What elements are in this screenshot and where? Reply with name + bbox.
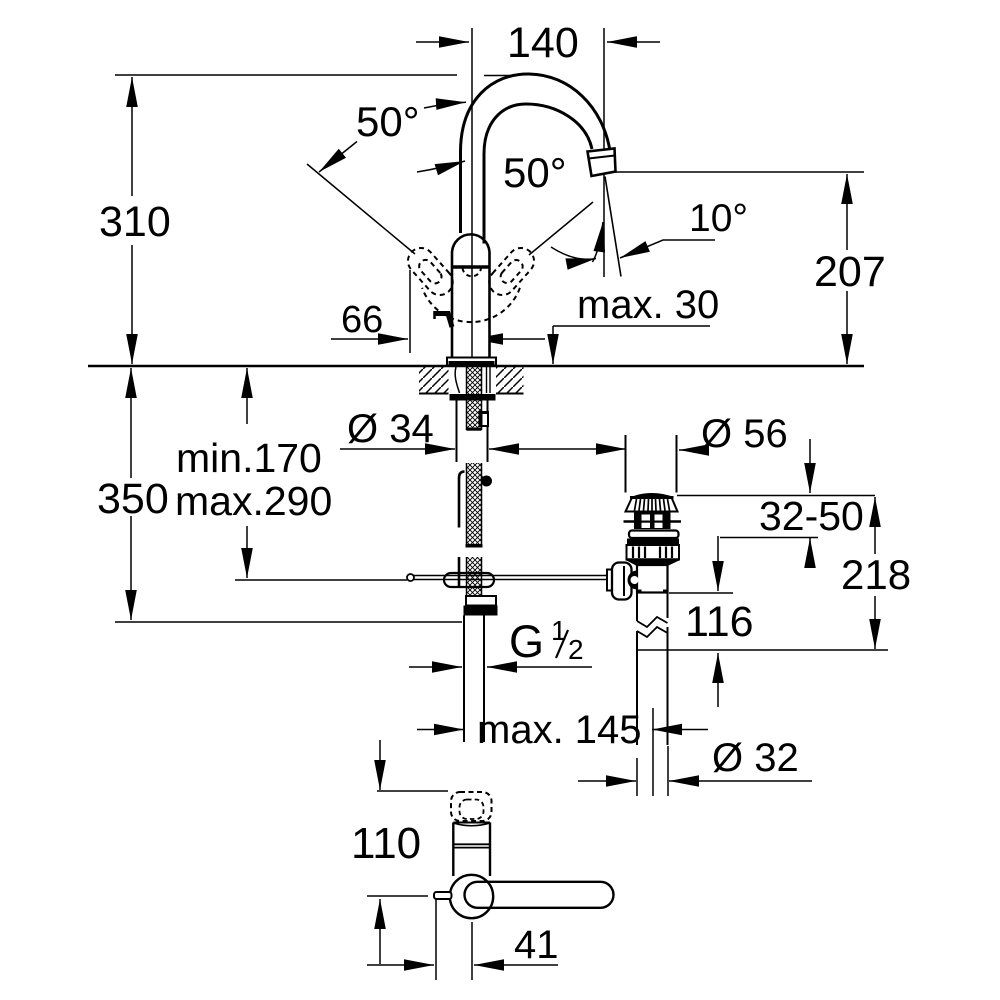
handle swept dashed arc — [422, 288, 520, 322]
spout outlet block — [588, 149, 616, 177]
deck / counter top line — [88, 365, 864, 368]
110 top reference line — [377, 790, 448, 792]
dim 350 — [130, 368, 132, 478]
svg-text:350: 350 — [97, 475, 169, 523]
110 bottom reference line — [367, 895, 428, 897]
braid segment lower — [467, 557, 482, 601]
dim 116 — [717, 536, 719, 591]
dim 310 — [131, 77, 133, 196]
66 extension line — [409, 270, 411, 353]
shank tube below nut — [456, 401, 458, 463]
pull rod upper with hook — [459, 472, 465, 528]
svg-text:Ø 56: Ø 56 — [701, 412, 788, 456]
handle cap bottom line — [452, 265, 490, 269]
supply pipe G1/2 — [463, 616, 465, 743]
top view: column band — [453, 843, 490, 845]
32-50 lower reference line — [720, 537, 818, 539]
dashed handle tilted left paddle — [408, 248, 453, 295]
dim 32-50 arrows — [809, 439, 811, 493]
svg-text:50°: 50° — [356, 98, 420, 145]
spout outer curve — [461, 74, 611, 233]
water jet direction line (10 deg) — [605, 177, 621, 277]
hose curve in deck hole — [455, 367, 459, 393]
tailpipe with break — [636, 593, 638, 622]
flange funnel with knurl — [626, 498, 678, 512]
svg-text:66: 66 — [341, 299, 383, 341]
dim 41 — [367, 964, 434, 966]
dim Ø34 arrows — [340, 448, 455, 450]
10deg leader with arrow — [620, 240, 715, 258]
dim min170/max290 — [246, 368, 248, 424]
pop-up rod lever flag on body — [435, 314, 453, 328]
Ø32 extension lines — [636, 758, 638, 796]
dim 110 — [379, 740, 381, 790]
pull rod ball — [481, 476, 492, 487]
svg-text:min.170: min.170 — [176, 435, 322, 481]
svg-text:Ø 34: Ø 34 — [347, 407, 434, 451]
body step corners — [637, 590, 642, 593]
dim G1/2 — [409, 666, 462, 668]
base flange on deck — [447, 358, 496, 366]
svg-text:41: 41 — [514, 923, 559, 967]
top view: handle hub circle — [450, 875, 493, 918]
32-50 upper reference line — [677, 495, 875, 497]
outlet height reference line (207) — [615, 171, 864, 173]
dim Ø32 — [578, 780, 636, 782]
50deg upper leader arrow 1 — [424, 102, 466, 108]
rod left end cap — [407, 574, 414, 581]
top view: lever capsule — [465, 882, 614, 908]
svg-text:110: 110 — [351, 819, 421, 868]
50deg right diagonal leader — [529, 202, 593, 255]
centerline through body — [471, 233, 473, 364]
angle arc A with arrow — [551, 247, 596, 259]
svg-text:max.290: max.290 — [175, 478, 332, 524]
taper — [627, 561, 680, 567]
116 top reference line — [669, 592, 733, 594]
horizontal pop-up rod — [408, 575, 612, 577]
min170/max290 bottom reference line — [235, 579, 407, 581]
grid section — [634, 512, 671, 530]
dim max.145 — [417, 729, 464, 731]
deck cross-section hatch left — [419, 367, 449, 393]
max145 right extension line — [652, 708, 654, 796]
lever knob — [607, 570, 613, 591]
dim 66 — [331, 338, 408, 340]
svg-text:310: 310 — [99, 198, 171, 246]
lever ball boss — [628, 571, 637, 590]
retaining clip — [479, 411, 490, 427]
41 extension lines — [435, 896, 437, 980]
braid segment below tube — [467, 463, 482, 546]
svg-text:50°: 50° — [503, 149, 567, 196]
top view: dashed spout square — [451, 792, 492, 821]
svg-text:10°: 10° — [689, 197, 748, 240]
pop-up drain upper pipe — [625, 435, 627, 493]
svg-text:116: 116 — [685, 598, 754, 646]
flange ring — [629, 531, 679, 539]
50deg left angle arrow — [319, 142, 357, 173]
angle arc B with arrow — [593, 222, 604, 262]
top view: body column — [452, 823, 454, 877]
pull rod lower segment — [458, 557, 461, 588]
50deg left tangent line — [307, 164, 415, 254]
dim 140 — [416, 41, 469, 43]
dim Ø56 right arrow — [679, 449, 707, 451]
o-ring band — [627, 539, 679, 546]
rod clevis capsule — [444, 573, 494, 587]
top view: spout tip stub — [434, 892, 452, 899]
top reference line (spout height 310) — [115, 74, 457, 76]
spout inner curve — [484, 104, 592, 244]
threaded stud lines — [486, 367, 488, 393]
shank braid through deck — [467, 367, 482, 394]
faucet body column — [452, 234, 490, 358]
svg-text:Ø 32: Ø 32 — [712, 736, 799, 780]
218 bottom reference line — [637, 649, 888, 651]
svg-text:G: G — [509, 616, 544, 667]
max.30 leader — [553, 325, 710, 327]
top view: inner dashed outline — [460, 800, 484, 820]
svg-text:140: 140 — [507, 19, 579, 67]
dashed handle tilted right paddle — [489, 248, 534, 295]
svg-text:max. 30: max. 30 — [577, 283, 719, 327]
deck cross-section hatch right — [496, 367, 524, 393]
lock nut — [627, 545, 680, 560]
svg-text:207: 207 — [814, 248, 886, 296]
svg-text:218: 218 — [841, 551, 911, 598]
spout tip vertical extension line — [603, 28, 605, 277]
valve body — [637, 565, 668, 593]
plug dome — [631, 493, 674, 497]
350 bottom reference line — [115, 621, 462, 623]
dim 207 — [846, 174, 848, 250]
svg-text:max. 145: max. 145 — [477, 708, 642, 752]
svg-text:32-50: 32-50 — [759, 493, 864, 539]
50deg upper leader arrow 2 — [417, 161, 465, 172]
faucet centerline — [471, 28, 473, 364]
svg-text:2: 2 — [568, 634, 584, 665]
mounting nut under deck — [450, 394, 496, 401]
braid inside shank tube — [467, 401, 482, 429]
hose compression nut — [466, 596, 496, 606]
dim 218 — [874, 497, 876, 554]
cartridge dashed arc inside body — [463, 268, 482, 276]
shared tail Ø34 right / Ø56 left — [489, 448, 626, 450]
